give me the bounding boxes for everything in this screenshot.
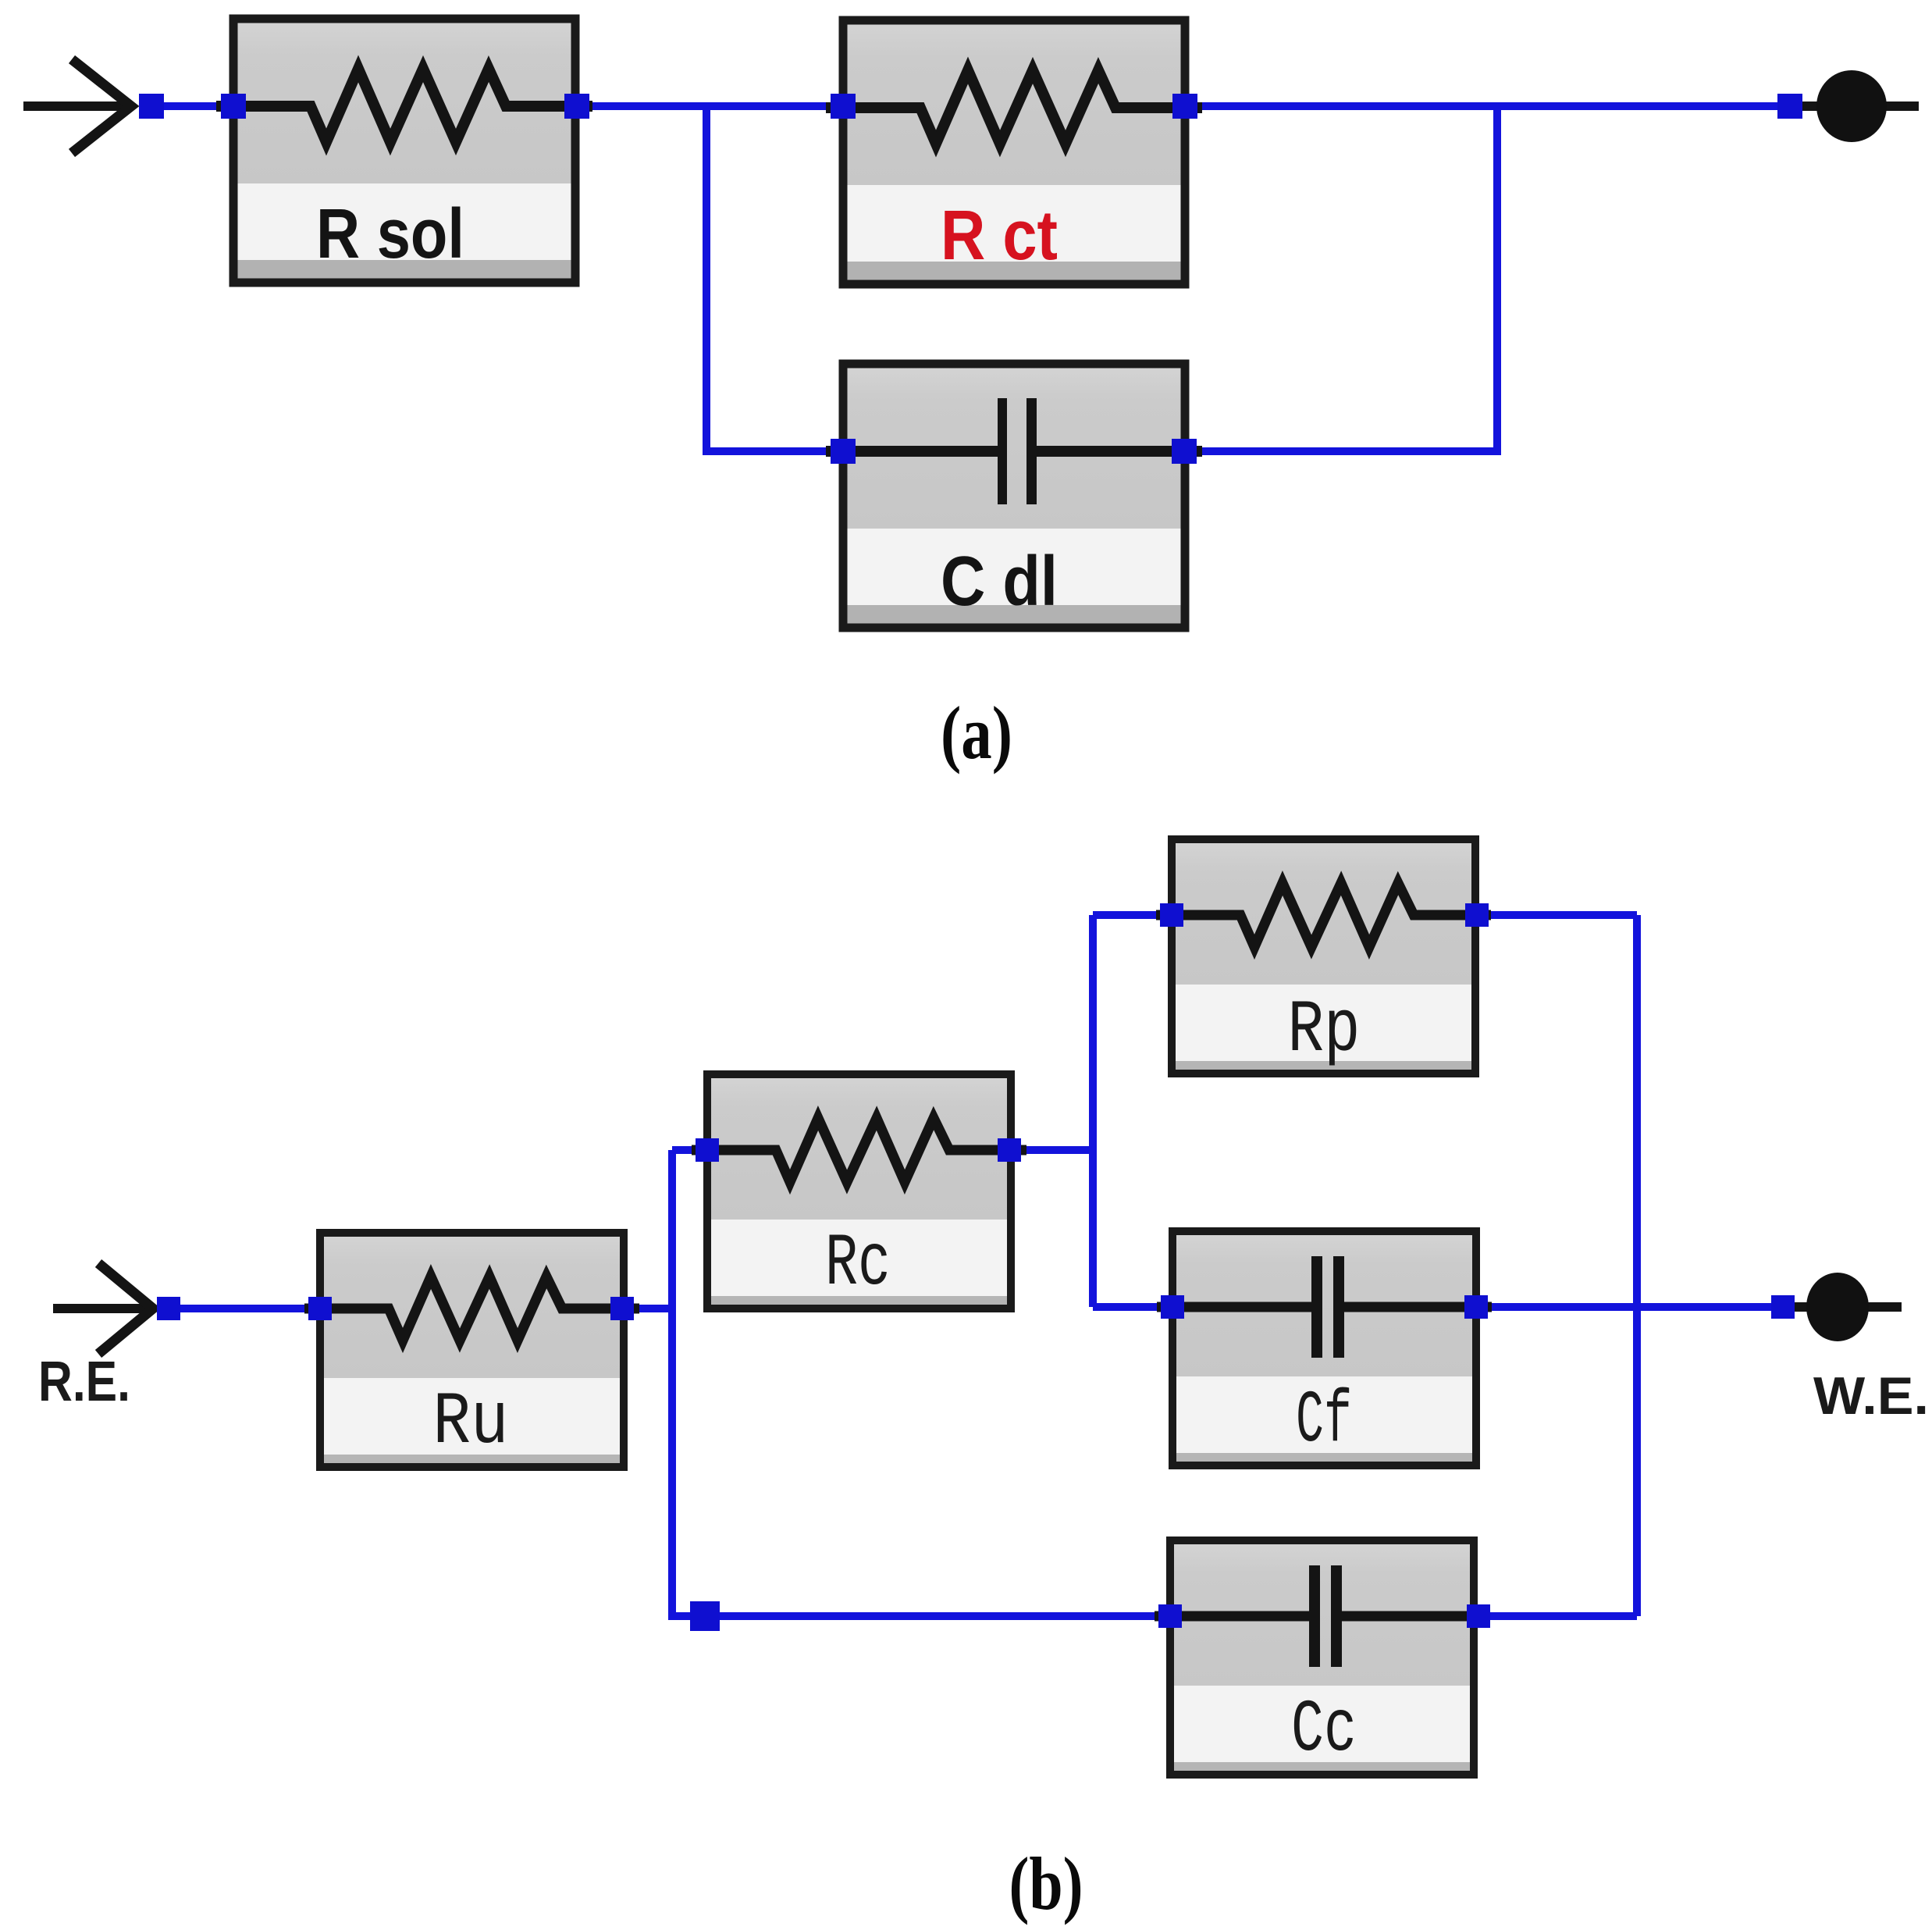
wire C dl to right riser <box>1184 106 1497 451</box>
node arrow (a) <box>139 94 164 119</box>
node Rp left <box>1160 903 1183 927</box>
svg-text:Ru: Ru <box>433 1380 509 1465</box>
svg-text:R.E.: R.E. <box>38 1351 130 1413</box>
svg-text:W.E.: W.E. <box>1813 1366 1929 1426</box>
wire middle riser to Cf <box>1093 1303 1172 1311</box>
node Cf right <box>1464 1295 1488 1319</box>
wire Cc to right riser <box>1478 1612 1637 1620</box>
capacitor Cc <box>1155 1540 1489 1775</box>
node Cc right <box>1467 1604 1490 1628</box>
wire R ct to output node <box>1185 102 1790 110</box>
node R ct left <box>831 94 856 119</box>
wire riser top to Rc <box>672 1146 707 1154</box>
wire input to R sol <box>151 102 233 110</box>
wire R sol to R ct <box>577 102 843 110</box>
node arrow R.E. <box>157 1297 180 1320</box>
wire Rp to right riser <box>1477 911 1637 919</box>
resistor Rc <box>692 1074 1026 1309</box>
wire middle riser <box>1089 915 1097 1307</box>
svg-text:Rc: Rc <box>825 1222 891 1306</box>
svg-text:Rp: Rp <box>1288 988 1361 1073</box>
svg-text:Cc: Cc <box>1291 1688 1357 1772</box>
capacitor Cf <box>1157 1231 1492 1465</box>
resistor Ru <box>304 1233 639 1467</box>
input terminal arrow R.E. <box>53 1263 153 1354</box>
capacitor C dl <box>826 364 1202 628</box>
wire left riser and bottom rail to Cc <box>672 1150 1170 1616</box>
node output W.E. <box>1771 1295 1795 1319</box>
resistor R sol <box>216 19 592 283</box>
wire right riser <box>1633 915 1641 1616</box>
node Ru left <box>308 1297 332 1320</box>
svg-text:Cf: Cf <box>1296 1379 1352 1463</box>
node C dl left <box>831 439 856 464</box>
node Rp right <box>1465 903 1489 927</box>
wire R.E. to Ru <box>169 1305 320 1312</box>
output terminal dot W.E. <box>1788 1273 1902 1341</box>
svg-text:R sol: R sol <box>316 195 464 273</box>
resistor Rp <box>1156 839 1491 1074</box>
wire Cf to output node W.E. <box>1476 1303 1783 1311</box>
wire Rc to middle riser <box>1009 1146 1093 1154</box>
node R ct right <box>1172 94 1197 119</box>
node output (a) <box>1777 94 1802 119</box>
input terminal arrow (a) <box>23 59 131 153</box>
node R sol right <box>564 94 589 119</box>
node R sol left <box>221 94 246 119</box>
node Cc left <box>1158 1604 1182 1628</box>
svg-text:(a): (a) <box>941 691 1012 774</box>
node C dl right <box>1172 439 1197 464</box>
junction node bottom rail <box>690 1601 720 1631</box>
svg-text:C dl: C dl <box>941 543 1058 621</box>
wire branch down to C dl <box>706 106 843 451</box>
svg-text:(b): (b) <box>1009 1842 1083 1925</box>
wire Ru to left riser <box>622 1305 676 1312</box>
resistor R ct <box>826 20 1202 284</box>
output terminal dot (a) <box>1795 70 1919 142</box>
node Rc right <box>998 1138 1021 1162</box>
node Rc left <box>696 1138 719 1162</box>
node Ru right <box>610 1297 634 1320</box>
wire middle riser to Rp <box>1093 911 1172 919</box>
node Cf left <box>1161 1295 1184 1319</box>
svg-text:R ct: R ct <box>941 197 1058 275</box>
